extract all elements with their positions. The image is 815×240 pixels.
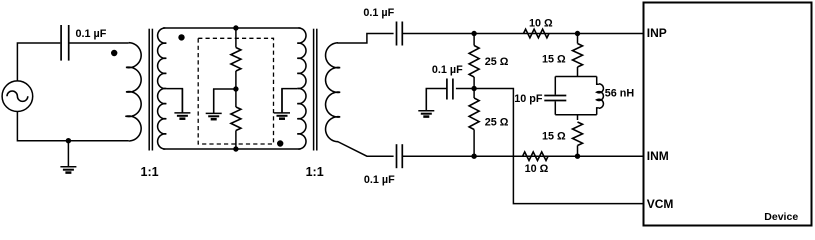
resistor R INM 10 [523,152,549,161]
inductor winding T2 primary [297,28,306,149]
svg-text:1:1: 1:1 [306,165,324,179]
ground (bias midpoint) [213,89,215,113]
resistor R term bottom 25 [469,98,479,130]
svg-text:10 Ω: 10 Ω [529,17,553,29]
wire C1 to T1 primary [69,42,129,44]
wire VCM [474,89,643,204]
transformer T2 core [313,29,315,151]
wire source top to C1 [17,43,60,81]
wire middle top [163,27,301,29]
junction INM / termination chain [472,154,476,158]
junction bias midpoint [234,87,238,91]
capacitor C1 0.1 uF [60,25,62,61]
svg-text:INM: INM [647,149,669,163]
resistor bias bottom [231,107,241,131]
junction ground tap [66,139,70,143]
wire C3 to INM line [402,155,643,157]
svg-text:0.1 µF: 0.1 µF [76,28,107,40]
junction top of bias chain [234,26,238,30]
inductor winding T1 secondary [158,28,167,149]
resistor R filter top 15 [577,34,579,44]
wire C4 to ground [426,89,447,111]
device box [644,3,812,226]
resistor R INP 10 [524,29,550,38]
svg-text:0.1 µF: 0.1 µF [363,7,394,19]
wire T1 secondary center tap [166,89,182,113]
wire T2 secondary bottom to C3 [338,142,394,157]
inductor winding T2 secondary [326,43,341,142]
ground (C4) [425,89,427,111]
AC source V1 [2,81,33,112]
wire T2 primary center tap [282,89,297,113]
svg-text:25 Ω: 25 Ω [485,56,509,68]
capacitor C2 0.1 uF [396,22,398,46]
inductor L tank 56 nH [597,84,604,108]
capacitor C3 0.1 uF [396,144,398,168]
ground (T1 secondary center tap) [181,89,183,113]
svg-text:INP: INP [647,26,667,40]
polarity dot T2 primary [278,141,283,146]
svg-text:10 Ω: 10 Ω [525,163,549,175]
svg-text:25 Ω: 25 Ω [485,116,509,128]
junction INP / termination chain [472,31,476,35]
junction termination midpoint [472,86,476,90]
ground (T2 primary center tap) [281,89,283,113]
wire bias center tap [214,89,236,113]
polarity dot T1 secondary [179,35,184,40]
inductor winding T1 primary [126,43,141,141]
resistor R term top 25 [473,34,475,46]
wire T2 secondary top to C2 [338,34,394,44]
resistor bias top [235,28,237,48]
svg-text:10 pF: 10 pF [514,93,543,105]
wire termination mid to C4 [456,88,474,90]
svg-text:15 Ω: 15 Ω [542,130,566,142]
svg-text:15 Ω: 15 Ω [542,54,566,66]
dashed network box [198,38,273,144]
svg-text:0.1 µF: 0.1 µF [432,64,463,76]
wire bottom of source loop [17,112,128,141]
polarity dot T1 primary [112,50,117,55]
transformer T1 core [148,29,150,151]
svg-text:1:1: 1:1 [141,165,159,179]
LC tank outline [555,76,596,78]
junction INM / filter [575,154,579,158]
ground (source loop) [67,141,69,167]
junction bottom of bias chain [234,147,238,151]
wire C2 to INP line [402,33,643,35]
svg-text:VCM: VCM [647,197,674,211]
resistor R filter bottom 15 [577,115,579,120]
capacitor C tank 10 pF [544,95,566,97]
junction INP / filter [575,31,579,35]
svg-text:Device: Device [764,211,798,223]
svg-text:0.1 µF: 0.1 µF [364,174,395,186]
capacitor C4 0.1 uF [446,79,448,100]
wire middle bottom [163,148,301,150]
svg-text:56 nH: 56 nH [605,88,635,100]
